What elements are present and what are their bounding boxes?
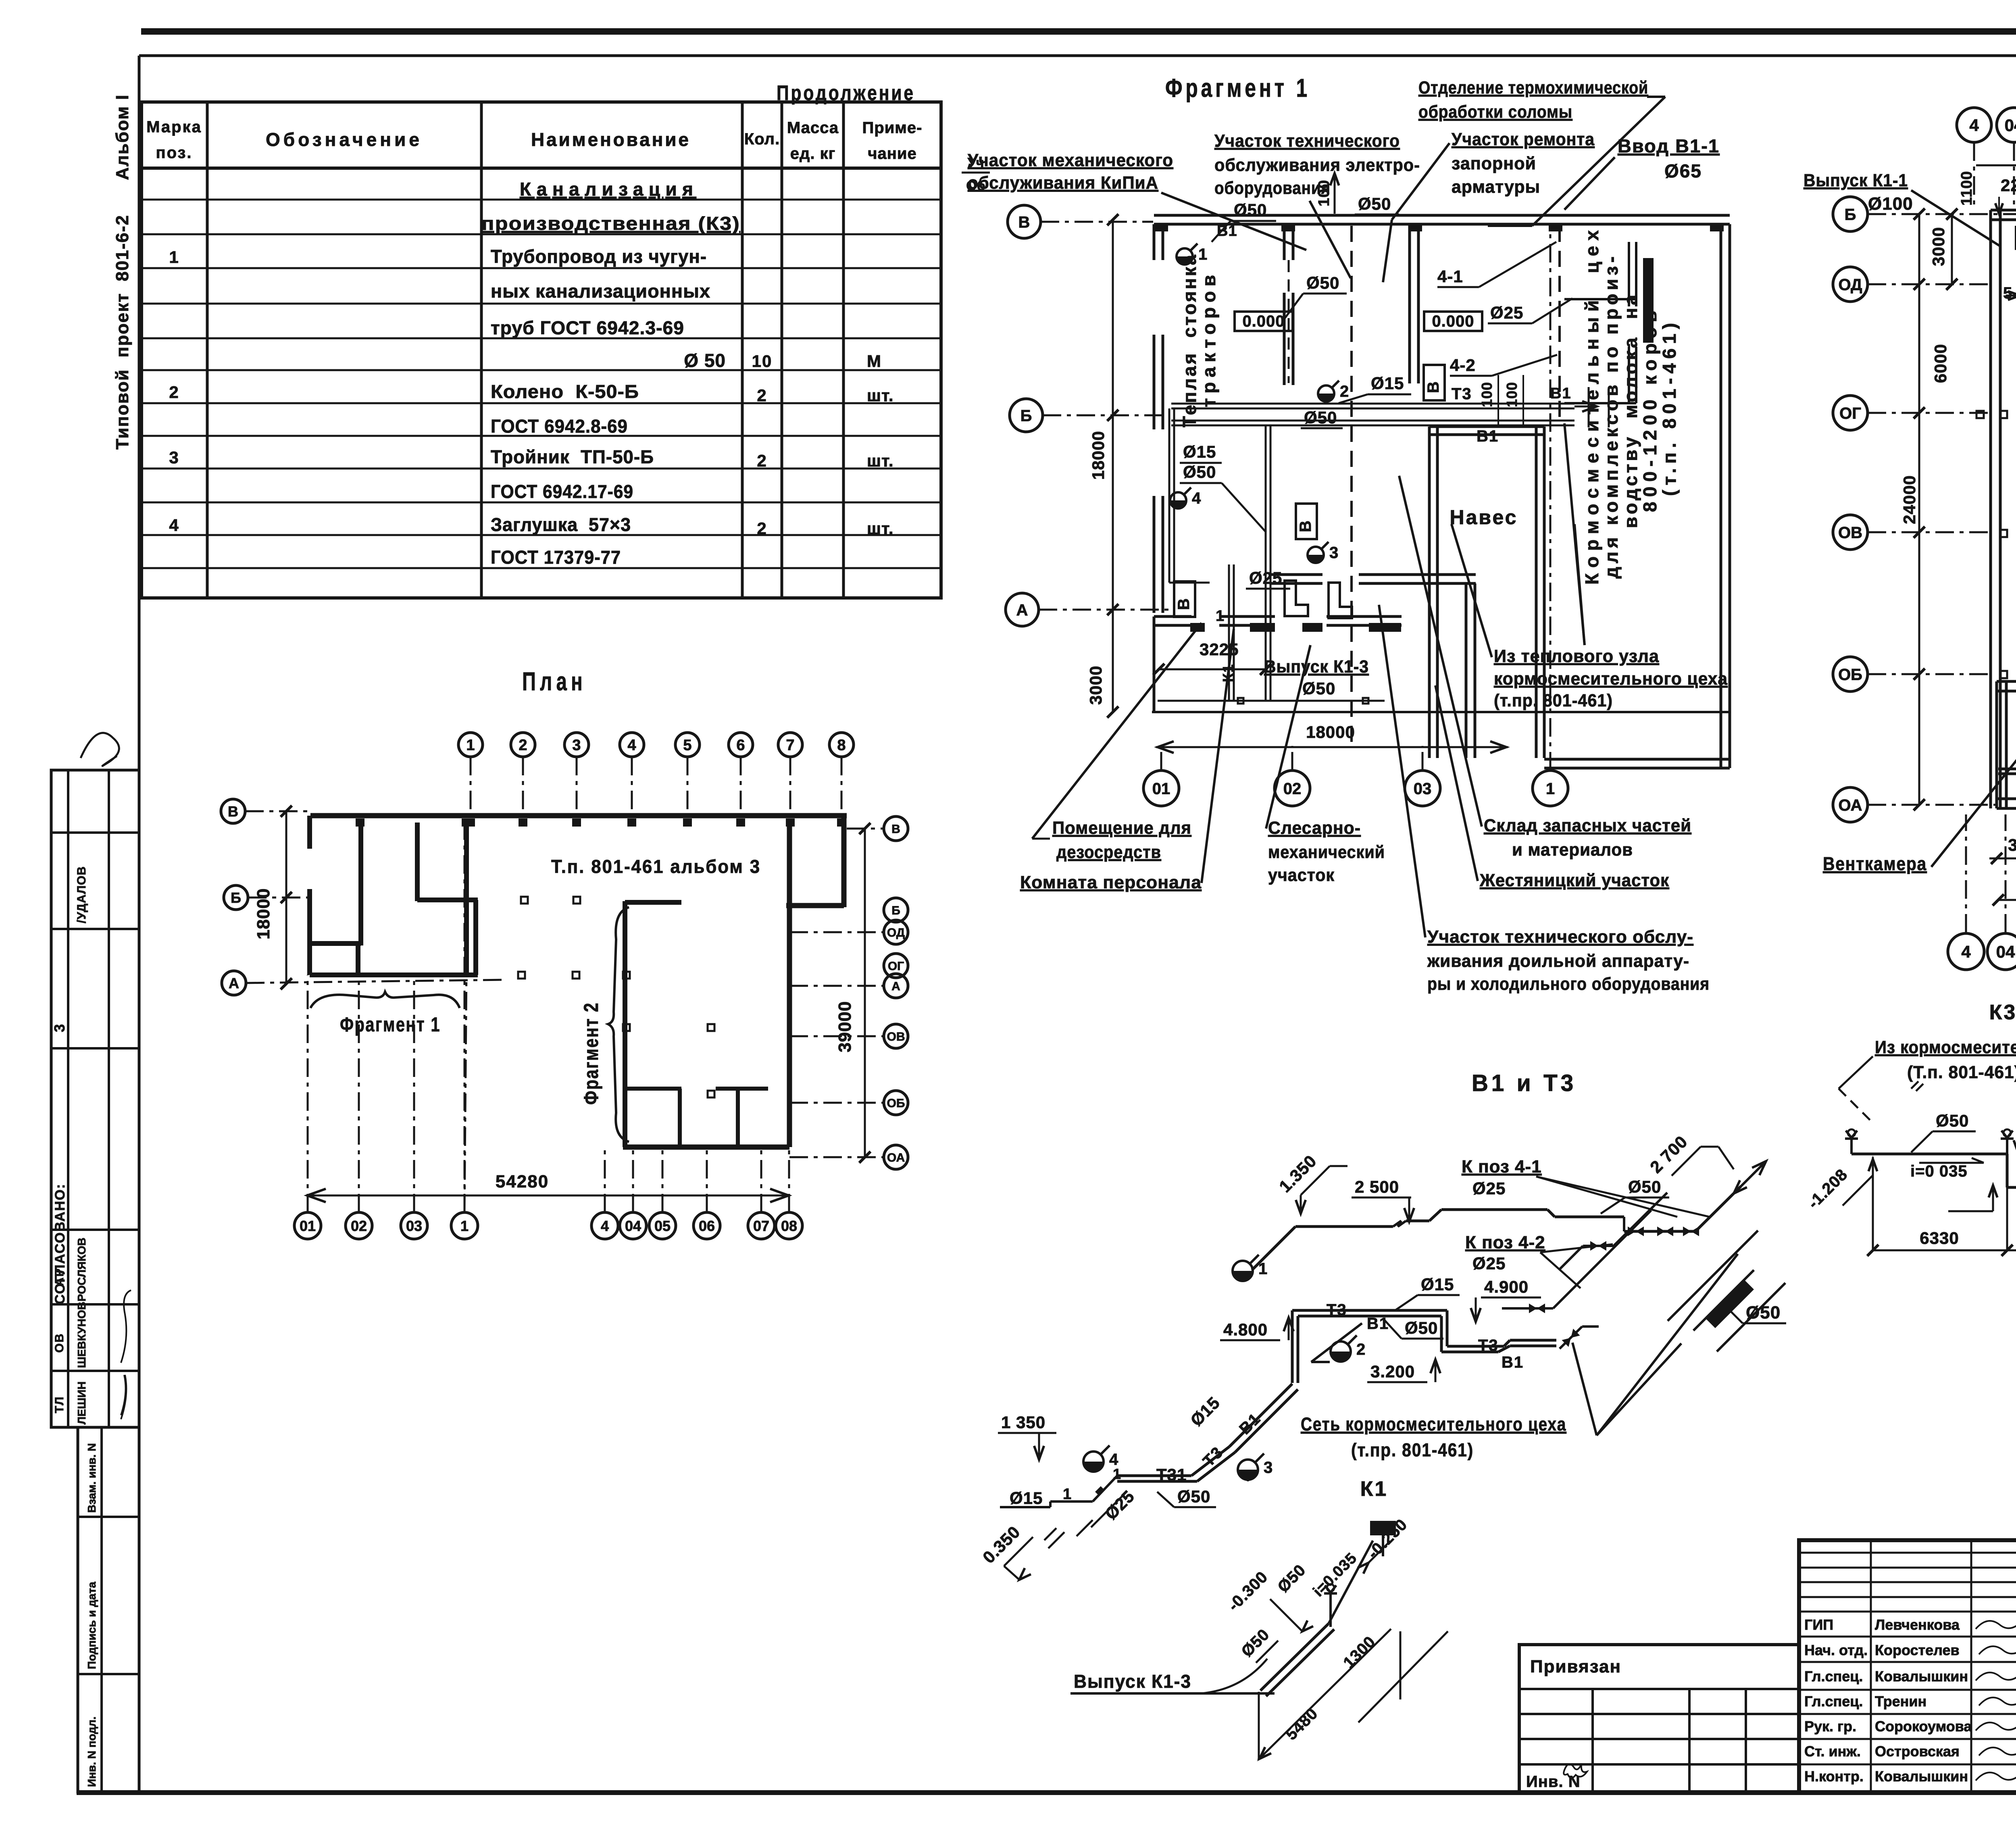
svg-text:3.200: 3.200 [1370, 1362, 1415, 1381]
leader Склад запасных [1399, 476, 1482, 827]
svg-text:Островская: Островская [1875, 1743, 1960, 1760]
svg-text:08: 08 [781, 1218, 797, 1234]
svg-text:Ø15: Ø15 [1183, 442, 1216, 461]
leader Комната персонала [1202, 629, 1234, 883]
K1 45 deg pipe [1260, 1624, 1329, 1691]
fragment1 dim line 18000 vertical [1112, 220, 1114, 610]
svg-text:Ковалышкин: Ковалышкин [1875, 1768, 1968, 1785]
svg-text:водству молока на: водству молока на [1620, 294, 1641, 528]
svg-text:для комплексов по произ-: для комплексов по произ- [1601, 256, 1622, 579]
svg-text:18000: 18000 [1089, 431, 1108, 480]
svg-text:Рук. гр.: Рук. гр. [1804, 1718, 1856, 1735]
svg-text:Ø100: Ø100 [1868, 194, 1913, 214]
leader from Отделение label [1647, 96, 1665, 98]
axon symbol pump 1 [1233, 1261, 1253, 1281]
svg-text:/УДАЛОВ: /УДАЛОВ [75, 866, 88, 923]
svg-text:6000: 6000 [1931, 344, 1950, 383]
plan pilasters on top wall [466, 818, 475, 827]
leader Помещение для дезосредств [1032, 838, 1050, 840]
fragment1 interior wall v1b [1408, 225, 1411, 383]
svg-text:ЛЕШИН: ЛЕШИН [75, 1381, 88, 1424]
svg-text:В: В [891, 823, 900, 836]
svg-text:Ø15: Ø15 [1371, 374, 1404, 393]
svg-text:Сеть кормосмесительного цеха: Сеть кормосмесительного цеха [1301, 1414, 1566, 1435]
plan left grid circles В Б А [221, 799, 245, 823]
svg-text:(т.п. 801-461): (т.п. 801-461) [1659, 323, 1680, 496]
svg-text:ГИП: ГИП [1804, 1616, 1833, 1633]
signature scribbles [1976, 1616, 2016, 1629]
svg-text:Фрагмент 1: Фрагмент 1 [340, 1013, 441, 1036]
svg-text:ОБ: ОБ [887, 1097, 905, 1110]
svg-text:1: 1 [169, 248, 179, 267]
svg-text:ОГ: ОГ [888, 960, 904, 973]
svg-text:1: 1 [1216, 608, 1225, 625]
fragment2 building left wall [1989, 210, 1992, 808]
svg-text:2 500: 2 500 [1355, 1177, 1399, 1196]
svg-text:труб ГОСТ 6942.3-69: труб ГОСТ 6942.3-69 [491, 317, 684, 338]
svg-text:В1: В1 [1367, 1315, 1389, 1333]
axon valves top [1628, 1227, 1644, 1236]
svg-text:Б: Б [1845, 206, 1856, 223]
plan top grid circles 1-8 [458, 733, 483, 757]
svg-text:7: 7 [786, 737, 794, 754]
svg-text:шт.: шт. [867, 519, 894, 538]
svg-text:Из теплового узла: Из теплового узла [1494, 646, 1659, 666]
pipe arrows at right end [1582, 401, 1597, 412]
svg-text:ОВ: ОВ [53, 1333, 66, 1353]
svg-text:чание: чание [868, 145, 916, 162]
pipe Ф50 branch upper [1288, 260, 1290, 383]
svg-text:ОД: ОД [1838, 276, 1862, 294]
svg-text:3: 3 [572, 737, 581, 754]
svg-text:Ø25: Ø25 [1490, 303, 1523, 322]
svg-text:Ø50: Ø50 [1746, 1303, 1781, 1322]
plan right grid circles [884, 816, 908, 841]
svg-text:ОБ: ОБ [1838, 666, 1862, 683]
svg-text:4.900: 4.900 [1484, 1277, 1529, 1296]
svg-text:Ø50: Ø50 [1234, 200, 1267, 219]
K1 flag symbol [1370, 1521, 1396, 1535]
fragment2 bottom grid circles [1948, 933, 1984, 970]
svg-text:Ø25: Ø25 [1249, 569, 1282, 587]
svg-text:4: 4 [1961, 942, 1971, 961]
svg-text:Инв. N подл.: Инв. N подл. [85, 1716, 98, 1787]
svg-text:Т.п. 801-461 альбом 3: Т.п. 801-461 альбом 3 [551, 856, 761, 877]
vent box В lower [1174, 581, 1195, 617]
svg-text:1: 1 [466, 737, 475, 754]
fragment1 ground line [1152, 711, 1730, 713]
K3 small arrow up mid [1989, 1185, 1997, 1197]
svg-text:3000: 3000 [2008, 835, 2016, 854]
svg-text:Масса: Масса [787, 119, 839, 137]
axon 45 deg main from lower left [1229, 1384, 1292, 1447]
plan fragment2 left wall [623, 901, 627, 1147]
svg-text:2: 2 [757, 451, 767, 470]
svg-text:4: 4 [169, 516, 179, 535]
svg-text:Б: Б [891, 904, 900, 917]
plan brace fragment 2 [608, 907, 629, 1142]
svg-text:В: В [228, 803, 238, 820]
svg-text:Нач. отд.: Нач. отд. [1804, 1642, 1868, 1658]
svg-text:Ø50: Ø50 [1306, 273, 1339, 292]
svg-text:Выпуск К1-3: Выпуск К1-3 [1074, 1671, 1191, 1692]
svg-text:Ø50: Ø50 [1177, 1487, 1210, 1506]
inner frame [139, 54, 2016, 57]
axon branch 3 with valve [1502, 1307, 1553, 1310]
svg-text:Т3: Т3 [1478, 1337, 1499, 1354]
signature table grid [1799, 1552, 2016, 1554]
svg-text:В1: В1 [1550, 385, 1572, 402]
svg-text:Ø65: Ø65 [1664, 160, 1702, 181]
svg-text:100: 100 [1479, 382, 1495, 407]
svg-text:Б: Б [231, 889, 241, 906]
axon leader triangle [1597, 1254, 1738, 1435]
leader Выпуск К1-1 [1911, 190, 2000, 246]
svg-text:Наименование: Наименование [531, 129, 692, 150]
fragment2 left grid circles [1833, 197, 1868, 231]
pipe vertical risers left [1168, 408, 1170, 583]
svg-text:обслуживания КиПиА: обслуживания КиПиА [968, 173, 1158, 193]
svg-text:Приме-: Приме- [862, 119, 923, 137]
axon symbol pump 2 [1331, 1341, 1351, 1362]
svg-text:В1: В1 [1477, 427, 1499, 445]
fragment1 bottom dim 18000 [1156, 746, 1508, 748]
svg-text:3: 3 [51, 1023, 68, 1032]
svg-text:02: 02 [351, 1218, 367, 1234]
axon T3 B1 corridor run double [1291, 1310, 1294, 1383]
svg-text:10: 10 [752, 352, 773, 371]
svg-text:К поз 4-2: К поз 4-2 [1465, 1233, 1545, 1252]
svg-text:Навес: Навес [1450, 506, 1518, 529]
svg-text:ГОСТ 6942.17-69: ГОСТ 6942.17-69 [491, 481, 633, 502]
fragment2 dim line 3000 6000 [1989, 858, 2016, 860]
svg-text:ОД: ОД [887, 926, 905, 939]
svg-text:Привязан: Привязан [1530, 1657, 1621, 1676]
title block outer [1799, 1540, 2016, 1792]
svg-text:Участок механического: Участок механического [968, 150, 1173, 170]
svg-text:Ø15: Ø15 [1010, 1489, 1043, 1508]
svg-text:1 350: 1 350 [1001, 1413, 1045, 1432]
plan grid line 1 long [464, 823, 468, 1210]
svg-text:РОСЛЯКОВ: РОСЛЯКОВ [75, 1238, 88, 1302]
axon slope ticks [1044, 1520, 1093, 1548]
svg-text:04: 04 [625, 1218, 641, 1234]
fragment1 bottom grid circles [1143, 771, 1179, 806]
svg-text:07: 07 [753, 1218, 769, 1234]
svg-text:Ковалышкин: Ковалышкин [1875, 1668, 1968, 1685]
svg-text:Фрагмент 1: Фрагмент 1 [1165, 73, 1310, 102]
leader from Участок ремонта [1392, 143, 1450, 220]
svg-text:ОВ: ОВ [887, 1030, 905, 1043]
svg-text:Склад запасных частей: Склад запасных частей [1484, 816, 1691, 835]
svg-text:3: 3 [1329, 544, 1339, 562]
svg-text:6330: 6330 [1920, 1229, 1959, 1247]
svg-text:В: В [1425, 381, 1442, 393]
svg-text:В: В [1175, 598, 1193, 610]
svg-text:2: 2 [519, 737, 527, 754]
svg-text:3000: 3000 [1086, 666, 1105, 705]
svg-text:Тренин: Тренин [1875, 1693, 1926, 1710]
svg-text:М: М [867, 352, 881, 371]
axon left tail [1093, 1476, 1117, 1501]
svg-text:Ст. инж.: Ст. инж. [1804, 1743, 1861, 1760]
svg-text:1100: 1100 [1958, 171, 1975, 206]
svg-text:4.800: 4.800 [1223, 1320, 1268, 1339]
boxed level 0.000 right [1424, 312, 1482, 331]
svg-text:Инв. N: Инв. N [1526, 1773, 1581, 1791]
svg-text:ед. кг: ед. кг [790, 145, 836, 162]
svg-text:Гл.спец.: Гл.спец. [1804, 1668, 1863, 1685]
svg-text:ТЛ: ТЛ [53, 1396, 66, 1413]
axon thick insulation bar [1705, 1279, 1754, 1328]
svg-text:В1 и Т3: В1 и Т3 [1472, 1070, 1577, 1096]
axon middle branch with valves [1583, 1245, 1614, 1247]
svg-text:Отделение термохимической: Отделение термохимической [1418, 78, 1648, 98]
svg-text:4: 4 [1192, 489, 1202, 507]
fragment1 left grid circles [1008, 205, 1041, 238]
privyazan table [1519, 1645, 1799, 1792]
vent box В mid [1296, 504, 1317, 539]
svg-text:Участок технического: Участок технического [1214, 131, 1400, 151]
leader from Участок механического [1161, 193, 1306, 250]
symbol pump 1 [1177, 248, 1193, 264]
fragment1 room 4-1 4-2 walls [1628, 242, 1630, 306]
sheet outer thick top border [141, 28, 2016, 35]
svg-text:ОА: ОА [1838, 796, 1862, 814]
plan bottom grid lines [307, 975, 309, 1212]
leader from Ввод В1-1 [1564, 157, 1615, 210]
svg-text:06: 06 [699, 1218, 715, 1234]
axon symbol pump 4 [1083, 1451, 1104, 1472]
leader Слесарно-механический [1266, 645, 1310, 829]
svg-text:В: В [1297, 520, 1314, 532]
svg-text:Сорокоумова: Сорокоумова [1875, 1718, 1972, 1735]
svg-text:39000: 39000 [835, 1001, 855, 1052]
svg-text:Ø50: Ø50 [1405, 1318, 1438, 1337]
fragment1 bottom right wall [1544, 758, 1730, 761]
K1 riser double line lower-left [1228, 564, 1230, 701]
svg-text:Тройник ТП-50-Б: Тройник ТП-50-Б [491, 446, 654, 467]
svg-text:Трубопровод из чугун-: Трубопровод из чугун- [491, 246, 707, 267]
svg-text:ГОСТ 17379-77: ГОСТ 17379-77 [491, 547, 621, 568]
leader Из теплового узла to plan [1452, 524, 1492, 657]
svg-text:шт.: шт. [867, 386, 894, 405]
svg-text:ОГ: ОГ [1839, 404, 1861, 422]
svg-text:Гл.спец.: Гл.спец. [1804, 1693, 1863, 1710]
fragment1 top wall [1154, 214, 1730, 217]
svg-text:(Т.п. 801-461) Ø50: (Т.п. 801-461) Ø50 [1907, 1062, 2016, 1082]
svg-text:арматуры: арматуры [1452, 177, 1540, 197]
svg-text:Ø50: Ø50 [1304, 408, 1337, 427]
svg-text:Выпуск К1-1: Выпуск К1-1 [1804, 171, 1908, 190]
svg-text:К1: К1 [1360, 1477, 1388, 1501]
plan interior wall x1035 [415, 823, 420, 901]
boxed level 0.000 left [1235, 312, 1293, 331]
axon valve right of T3 run [1562, 1329, 1580, 1347]
svg-text:и материалов: и материалов [1512, 840, 1633, 860]
svg-text:i=0 035: i=0 035 [1910, 1162, 1968, 1180]
pipe Ф50 outlet line with nodes [1158, 700, 1385, 702]
bottom frame line [77, 1790, 2016, 1795]
svg-text:Коростелев: Коростелев [1875, 1642, 1960, 1658]
svg-text:1: 1 [1198, 246, 1208, 263]
svg-text:3: 3 [1264, 1459, 1273, 1476]
svg-text:В1: В1 [1217, 223, 1237, 239]
plan building top wall [310, 813, 847, 818]
svg-text:Ø25: Ø25 [1472, 1179, 1506, 1198]
leader Венткамера left [1931, 756, 2016, 867]
svg-text:1: 1 [1546, 780, 1555, 798]
svg-text:0.000: 0.000 [1242, 312, 1285, 330]
svg-text:План: План [522, 667, 587, 696]
svg-text:ШЕВКУНОВ: ШЕВКУНОВ [75, 1302, 88, 1368]
svg-text:5: 5 [683, 737, 691, 754]
svg-text:2: 2 [1340, 383, 1350, 400]
svg-text:Ø15: Ø15 [1421, 1275, 1454, 1294]
signature scribbles in soglasovano table [121, 1290, 131, 1363]
svg-text:05: 05 [654, 1218, 671, 1234]
fragment1 dashed partition line [1350, 226, 1353, 744]
symbol pump 3 [1308, 547, 1324, 563]
svg-text:04: 04 [1996, 942, 2015, 961]
svg-text:2: 2 [1356, 1341, 1366, 1358]
svg-text:Н.контр.: Н.контр. [1804, 1768, 1864, 1785]
svg-text:2: 2 [757, 386, 767, 405]
svg-text:03: 03 [406, 1218, 422, 1234]
svg-text:ОА: ОА [887, 1151, 905, 1164]
svg-text:запорной: запорной [1452, 154, 1536, 173]
svg-text:2: 2 [169, 383, 179, 402]
svg-text:100: 100 [1504, 382, 1520, 407]
fragment1 bottom walls [1154, 615, 1191, 618]
svg-text:Теплая стоянка: Теплая стоянка [1179, 254, 1200, 427]
svg-text:А: А [1016, 601, 1028, 619]
svg-text:механический: механический [1268, 842, 1385, 862]
fragment2 top grid circles [1957, 108, 1991, 142]
svg-text:01: 01 [300, 1218, 316, 1234]
pipe T3 horizontal double [1171, 403, 1574, 405]
svg-text:4: 4 [1969, 116, 1979, 135]
svg-text:1: 1 [1113, 1466, 1122, 1482]
svg-text:18000: 18000 [254, 888, 273, 939]
svg-text:живания доильной аппарату-: живания доильной аппарату- [1427, 951, 1689, 971]
plan brace fragment 1 [310, 992, 460, 1008]
fragment1 interior wall v1 [1283, 224, 1286, 260]
svg-text:В1: В1 [1502, 1354, 1524, 1371]
fragment2 bottom room left (Тамбур cell) [1995, 681, 1998, 808]
K1 vertical pipe with vent [1324, 1584, 1337, 1609]
leader into fragment1 from Кормосмесительный [1564, 423, 1585, 645]
plan dim 54280 bottom [306, 1195, 789, 1197]
svg-text:Марка: Марка [146, 118, 202, 136]
svg-text:участок: участок [1268, 865, 1335, 885]
plan interior wall column 1 [464, 820, 469, 974]
plan small column squares [521, 897, 528, 904]
leader Жестяницкий [1435, 685, 1478, 881]
K3 pipe run [1851, 1153, 2007, 1156]
svg-text:Помещение для: Помещение для [1052, 818, 1191, 838]
fragment1 dim 3000 vertical [1112, 610, 1114, 712]
svg-text:Б: Б [1020, 407, 1032, 425]
svg-text:4: 4 [627, 737, 636, 754]
svg-text:Ø50: Ø50 [1358, 194, 1391, 213]
fragment2 dim verticals left [1918, 214, 1920, 805]
plan bottom grid circles [294, 1212, 321, 1239]
svg-text:Участок технического обслу-: Участок технического обслу- [1427, 927, 1693, 947]
svg-text:Венткамера: Венткамера [1823, 853, 1927, 874]
soglasovano table [51, 770, 139, 1427]
svg-text:Левченкова: Левченкова [1875, 1616, 1960, 1633]
svg-text:Т3: Т3 [1452, 385, 1472, 403]
svg-text:Из кормосмесительного цеха: Из кормосмесительного цеха [1875, 1037, 2016, 1057]
axon symbol pump 3 [1238, 1460, 1258, 1480]
svg-text:ры и холодильного оборудования: ры и холодильного оборудования [1427, 974, 1710, 994]
svg-text:3000: 3000 [1929, 227, 1948, 266]
plan lower middle rooms [625, 1087, 681, 1091]
svg-text:ГОСТ 6942.8-69: ГОСТ 6942.8-69 [491, 416, 628, 437]
svg-text:Типовой проект 801-6-2: Типовой проект 801-6-2 Альбом I [112, 94, 132, 450]
svg-text:А: А [229, 975, 239, 991]
svg-text:3: 3 [169, 448, 179, 467]
svg-text:Т3: Т3 [1327, 1301, 1347, 1319]
fragment1 door jamb posts [1285, 581, 1308, 616]
svg-text:Ввод В1-1: Ввод В1-1 [1618, 135, 1720, 156]
axon leaders К поз 4-2 [1540, 1252, 1581, 1288]
svg-text:Комната персонала: Комната персонала [1020, 873, 1202, 892]
svg-text:(т.пр. 801-461): (т.пр. 801-461) [1494, 691, 1613, 710]
svg-text:Слесарно-: Слесарно- [1268, 818, 1361, 838]
svg-text:Заглушка 57×3: Заглушка 57×3 [491, 514, 631, 535]
fragment1 top wall pilasters [1154, 224, 1168, 231]
svg-text:Ø 50: Ø 50 [684, 350, 726, 371]
svg-text:Фрагмент 2: Фрагмент 2 [580, 1002, 602, 1105]
K3 leader [1839, 1056, 1873, 1089]
fragment1 door thresholds [1190, 623, 1205, 632]
svg-text:04: 04 [2005, 116, 2016, 135]
svg-text:обслуживания электро-: обслуживания электро- [1214, 155, 1420, 175]
svg-text:Ø50: Ø50 [1936, 1111, 1969, 1130]
fragment2 dim line 18000 [1998, 899, 2016, 901]
plan building bottom-right wall [623, 1145, 789, 1150]
svg-text:поз.: поз. [156, 144, 192, 162]
fragment2 small column squares [1976, 411, 1984, 418]
svg-text:К поз 4-1: К поз 4-1 [1462, 1157, 1542, 1177]
svg-text:дезосредств: дезосредств [1056, 842, 1161, 862]
svg-text:24000: 24000 [1900, 475, 1919, 524]
fragment1 Навес room [1428, 427, 1431, 758]
svg-text:АР: АР [53, 1268, 66, 1286]
svg-text:шт.: шт. [867, 451, 894, 470]
svg-text:оборудования: оборудования [1214, 178, 1331, 198]
svg-text:К3: К3 [1989, 1001, 2016, 1024]
vent box В upper [1424, 365, 1445, 400]
svg-text:18000: 18000 [1306, 723, 1355, 741]
svg-text:Ø50: Ø50 [1302, 679, 1335, 698]
fragment1 left wall to ground [1153, 616, 1156, 712]
svg-text:Ø50: Ø50 [1628, 1177, 1661, 1196]
svg-text:03: 03 [1414, 780, 1432, 798]
plan lower-left room walls [310, 941, 361, 946]
pipe vertical to Выпуск К1-3 [1265, 425, 1267, 701]
svg-text:Обозначение: Обозначение [266, 129, 423, 150]
fragment1 left wall [1153, 224, 1156, 260]
plan dim 39000 right [864, 829, 866, 1157]
svg-text:4-2: 4-2 [1450, 356, 1476, 375]
svg-text:Подпись и дата: Подпись и дата [85, 1582, 98, 1669]
K3 dim lines [1872, 1157, 1874, 1250]
svg-text:Жестяницкий участок: Жестяницкий участок [1479, 870, 1669, 890]
fragment1 right outer wall [1720, 224, 1722, 768]
